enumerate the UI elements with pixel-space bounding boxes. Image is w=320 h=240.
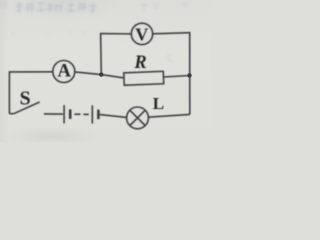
wire: left corner to ammeter	[9, 71, 52, 73]
lamp X stroke 2	[130, 110, 145, 125]
ghost bleed-through text top strip	[16, 3, 97, 12]
wire: voltmeter loop top left	[101, 33, 132, 35]
ghost faint second row	[10, 29, 88, 37]
switch S pivot foot	[9, 113, 13, 115]
wire: voltmeter loop left vertical	[100, 33, 103, 75]
svg-text:L: L	[153, 94, 164, 113]
svg-text:V: V	[135, 25, 148, 45]
corner smudge top-left	[0, 0, 7, 9]
battery cell2 long plate	[91, 105, 93, 123]
battery dashed link dash2	[83, 113, 88, 115]
svg-text:A: A	[58, 62, 72, 82]
wire: battery to lamp	[100, 115, 127, 118]
battery cell2 short plate	[97, 110, 100, 120]
svg-text:S: S	[20, 88, 31, 110]
wire: left vertical down to switch	[8, 71, 10, 114]
switch S blade	[14, 102, 40, 114]
wire: resistor to right junction	[164, 76, 190, 78]
wire: right vertical (V loop to lamp corner)	[189, 32, 191, 114]
resistor R box	[124, 71, 164, 85]
wire: voltmeter loop top right	[153, 33, 190, 34]
node junction right dot	[187, 73, 191, 77]
ghost mark right middle	[166, 55, 173, 61]
lamp X stroke 1	[130, 110, 145, 125]
battery dashed link dash1	[74, 113, 80, 115]
lamp L circle	[127, 107, 149, 129]
voltmeter V circle	[131, 23, 152, 44]
battery cell1 short plate	[69, 109, 72, 119]
svg-text:R: R	[133, 53, 146, 73]
wire: ammeter to node junction	[75, 72, 124, 78]
ammeter circle	[53, 61, 75, 83]
node junction left dot	[99, 72, 103, 76]
wire: lamp to bottom right corner	[148, 114, 189, 117]
battery cell1 long plate	[63, 105, 65, 123]
wire: battery lead from switch	[44, 113, 63, 115]
